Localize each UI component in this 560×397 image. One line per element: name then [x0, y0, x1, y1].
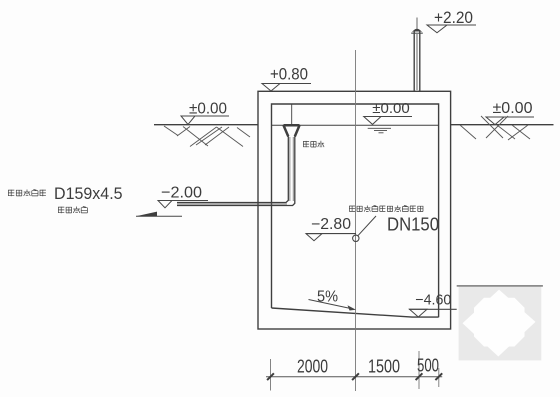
- svg-text:±0.00: ±0.00: [189, 101, 227, 118]
- svg-text:D159x4.5: D159x4.5: [54, 185, 123, 203]
- svg-text:1500: 1500: [368, 356, 400, 376]
- svg-text:−2.80: −2.80: [311, 216, 351, 233]
- svg-text:±0.00: ±0.00: [493, 100, 533, 117]
- svg-text:500: 500: [417, 355, 439, 375]
- svg-text:±0.00: ±0.00: [372, 100, 410, 117]
- svg-text:−4.60: −4.60: [415, 291, 451, 308]
- svg-text:5%: 5%: [317, 289, 338, 306]
- svg-text:DN150: DN150: [387, 215, 439, 235]
- svg-text:−2.00: −2.00: [161, 185, 202, 202]
- svg-text:+0.80: +0.80: [270, 66, 308, 84]
- svg-text:2000: 2000: [297, 356, 328, 376]
- svg-text:+2.20: +2.20: [434, 9, 473, 27]
